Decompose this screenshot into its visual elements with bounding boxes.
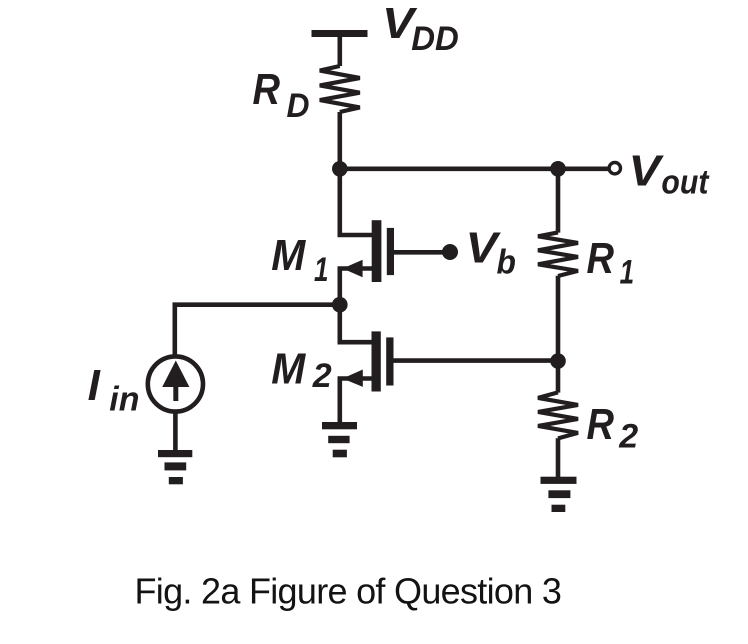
M2 gate wire to node D <box>394 358 559 363</box>
M1 gate wire to Vb dot <box>394 250 450 255</box>
wire node B to output terminal <box>558 167 608 172</box>
Vb terminal dot <box>442 244 458 260</box>
label RD <box>253 65 310 125</box>
node B junction dot <box>550 161 566 177</box>
wire R2 bottom to ground <box>556 438 561 477</box>
resistor RD <box>320 66 360 112</box>
label Vb <box>466 223 516 281</box>
svg-text:1: 1 <box>620 254 635 292</box>
label R2 <box>587 400 639 456</box>
output terminal Vout open circle <box>609 163 620 174</box>
ground under M2 <box>322 422 357 457</box>
wire node C to M2 drain <box>340 305 372 343</box>
current source Iin <box>148 356 203 411</box>
svg-text:Fig. 2a Figure of Question 3: Fig. 2a Figure of Question 3 <box>135 571 562 612</box>
svg-text:out: out <box>661 163 709 201</box>
transistor M2 <box>340 331 394 422</box>
wire Iin corner to node C <box>175 305 340 356</box>
label Iin <box>88 361 140 418</box>
wire node D to R2 <box>556 361 561 393</box>
wire node A down to M1 drain <box>340 169 373 235</box>
wire R1 bottom to node D <box>556 276 561 361</box>
svg-text:I: I <box>88 361 101 410</box>
node C junction dot <box>332 297 348 313</box>
ground under R2 <box>541 477 577 512</box>
label VDD <box>382 0 459 58</box>
svg-text:in: in <box>109 380 139 418</box>
label M1 <box>271 231 328 289</box>
wire VDD bar to RD top <box>337 37 342 66</box>
resistor R1 <box>538 232 578 276</box>
svg-text:R: R <box>253 65 281 114</box>
wire RD bottom to node A <box>337 112 342 169</box>
label R1 <box>587 234 635 292</box>
transistor M1 <box>340 220 394 305</box>
node A junction dot <box>332 161 348 177</box>
power rail VDD bar <box>312 30 368 37</box>
svg-text:D: D <box>287 87 310 125</box>
svg-text:2: 2 <box>618 418 638 456</box>
ground under Iin <box>158 450 192 484</box>
svg-text:M: M <box>271 344 306 393</box>
svg-text:DD: DD <box>411 20 459 58</box>
label M2 <box>271 344 331 395</box>
wire node B down to R1 <box>556 169 561 233</box>
svg-text:1: 1 <box>314 251 329 289</box>
svg-text:b: b <box>497 244 516 282</box>
svg-text:R: R <box>587 234 615 283</box>
svg-text:R: R <box>587 400 615 449</box>
label Vout <box>629 146 710 201</box>
svg-text:M: M <box>271 231 306 280</box>
resistor R2 <box>538 392 578 438</box>
wire Iin bottom to ground <box>173 412 178 451</box>
svg-text:V: V <box>629 146 665 195</box>
node D junction dot <box>550 353 566 369</box>
wire node A to node B <box>340 167 558 172</box>
svg-text:2: 2 <box>312 357 332 395</box>
